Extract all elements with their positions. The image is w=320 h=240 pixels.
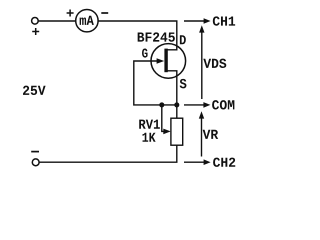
wire wiper tap from COM junction bbox=[162, 105, 164, 131]
wire potentiometer bottom to - terminal bbox=[40, 145, 177, 162]
transistor Q1 BF245 n-JFET bbox=[151, 44, 186, 79]
label VR bbox=[203, 130, 219, 139]
label COM bbox=[212, 100, 234, 109]
label 1K value bbox=[142, 133, 155, 142]
label minus right of meter bbox=[101, 12, 108, 14]
terminal positive input bbox=[32, 18, 39, 25]
label plus left of meter bbox=[67, 10, 74, 17]
label minus above bottom terminal bbox=[31, 151, 39, 153]
wire CH1 tap arrow bbox=[184, 18, 211, 24]
label CH2 bbox=[213, 158, 235, 167]
wire gate loop left and down to COM rail bbox=[134, 61, 179, 105]
label 25V supply bbox=[23, 86, 46, 95]
label CH1 bbox=[213, 16, 235, 25]
label G gate pin bbox=[142, 49, 148, 58]
meter M1 milliammeter bbox=[76, 10, 98, 32]
wire VR measurement arrow up bbox=[199, 111, 204, 156]
wire CH2 tap arrow bbox=[184, 159, 211, 165]
resistor RV1 potentiometer body bbox=[163, 118, 182, 145]
terminal negative input bbox=[32, 159, 39, 166]
wire top rail from + terminal through meter to drain corner bbox=[38, 21, 177, 50]
label BF245 bbox=[138, 32, 175, 41]
label VDS bbox=[203, 59, 226, 68]
wire source down to potentiometer top bbox=[168, 71, 177, 118]
label RV1 bbox=[139, 120, 160, 129]
label S source pin bbox=[180, 79, 187, 89]
label plus below top terminal bbox=[32, 28, 39, 35]
wire COM tap arrow bbox=[184, 102, 210, 108]
node junction source/pot on COM rail bbox=[174, 102, 179, 107]
node junction gate/wiper on COM rail bbox=[159, 102, 164, 107]
wire VDS measurement arrow up bbox=[199, 25, 204, 99]
label D drain pin bbox=[180, 35, 186, 44]
